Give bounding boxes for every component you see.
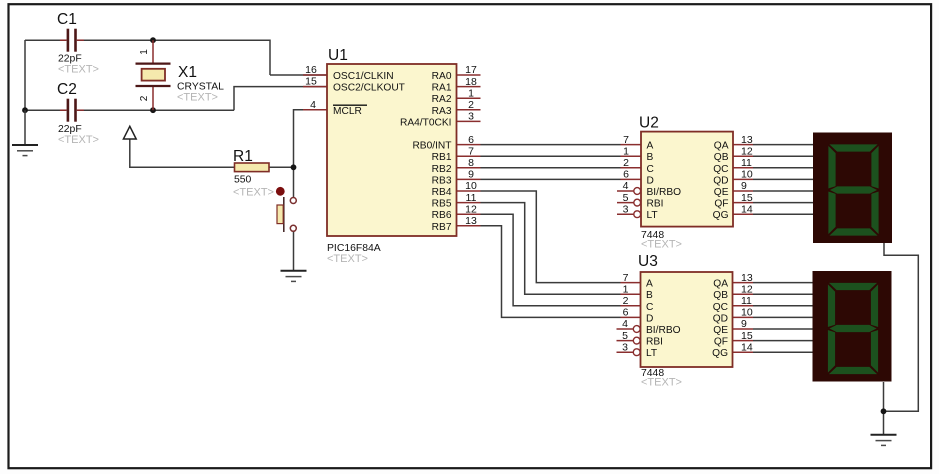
wire U2 QB to display DS1 — [753, 155, 813, 157]
svg-text:7: 7 — [468, 145, 474, 157]
pin stub U3 QE — [733, 328, 753, 330]
svg-text:RBI: RBI — [646, 337, 663, 348]
decoder U3 bubble pin LT (pin 3) — [617, 349, 641, 356]
svg-text:5: 5 — [622, 330, 628, 342]
pin stub RA2 (pin 1) — [457, 97, 481, 99]
wire U3 QB to display DS2 — [753, 293, 813, 295]
decoder U2 bubble pin LT (pin 3) — [617, 211, 641, 218]
wire U2 QE to display DS1 — [753, 190, 813, 192]
decoder U3 bubble pin RBI (pin 5) — [617, 337, 641, 344]
svg-text:2: 2 — [139, 95, 150, 101]
svg-text:11: 11 — [741, 295, 752, 307]
svg-text:16: 16 — [305, 64, 317, 76]
wire RB5 to U3 B — [481, 203, 621, 295]
svg-text:<TEXT>: <TEXT> — [58, 134, 99, 146]
wire R1 right lead to node — [269, 166, 294, 168]
pin stub U3 QB — [733, 293, 753, 295]
svg-text:1: 1 — [139, 49, 150, 55]
svg-text:6: 6 — [623, 307, 629, 319]
svg-text:C2: C2 — [57, 81, 77, 98]
7-segment display DS1 — [813, 133, 892, 244]
svg-text:6: 6 — [468, 134, 474, 146]
svg-text:9: 9 — [741, 180, 747, 192]
svg-text:QG: QG — [712, 348, 728, 359]
decoder U2 bubble pin BI/RBO (pin 4) — [617, 188, 641, 195]
wire U2 QG to display DS1 — [753, 213, 813, 215]
svg-text:QF: QF — [714, 199, 728, 210]
svg-text:<TEXT>: <TEXT> — [177, 92, 218, 104]
svg-text:11: 11 — [466, 192, 477, 204]
wire U2 QC to display DS1 — [753, 167, 813, 169]
svg-text:3: 3 — [468, 111, 474, 123]
svg-text:13: 13 — [741, 134, 753, 146]
svg-text:C: C — [646, 302, 653, 313]
pin stub RB1 — [457, 155, 481, 157]
svg-text:RB5: RB5 — [432, 199, 452, 210]
svg-text:2: 2 — [623, 295, 629, 307]
pin stub U3 QC — [733, 305, 753, 307]
svg-text:10: 10 — [741, 307, 753, 319]
wire U3 QG to display DS2 — [753, 351, 813, 353]
svg-text:RB6: RB6 — [432, 210, 452, 221]
svg-text:OSC1/CLKIN: OSC1/CLKIN — [333, 71, 394, 82]
pin stub RB6 — [457, 213, 481, 215]
wire crystal node to OSC2 corner — [234, 87, 327, 111]
capacitor C2 — [60, 99, 84, 122]
wire RB7 to U3 D — [481, 226, 621, 318]
svg-text:2: 2 — [468, 99, 474, 111]
svg-text:RB4: RB4 — [432, 187, 452, 198]
svg-text:RA2: RA2 — [432, 94, 452, 105]
svg-text:QE: QE — [714, 187, 729, 198]
pin stub RB7 — [457, 225, 481, 227]
pin stub U3 B — [621, 293, 641, 295]
pin stub U2 QC — [733, 167, 753, 169]
svg-text:4: 4 — [622, 318, 628, 330]
svg-text:13: 13 — [741, 272, 753, 284]
crystal X1 — [136, 40, 171, 110]
svg-text:10: 10 — [465, 180, 477, 192]
wire ground rail C1-C2 left vertical — [24, 40, 26, 110]
pin stub U2 QA — [733, 144, 753, 146]
svg-text:QB: QB — [714, 152, 729, 163]
wire C1 left lead — [25, 39, 66, 41]
svg-text:RB2: RB2 — [432, 164, 452, 175]
svg-text:BI/RBO: BI/RBO — [647, 187, 682, 198]
pin stub U3 QA — [733, 282, 753, 284]
svg-text:D: D — [646, 313, 653, 324]
svg-text:RA4/T0CKI: RA4/T0CKI — [400, 117, 452, 128]
svg-text:RB1: RB1 — [432, 152, 452, 163]
pin stub U2 D — [621, 178, 642, 180]
wire RB0 to U2 A — [481, 144, 621, 146]
wire U3 QA to display DS2 — [753, 282, 813, 284]
svg-text:OSC2/CLKOUT: OSC2/CLKOUT — [333, 83, 405, 94]
svg-text:BI/RBO: BI/RBO — [646, 325, 681, 336]
svg-text:<TEXT>: <TEXT> — [58, 63, 99, 75]
pin stub U3 A — [621, 282, 641, 284]
svg-text:D: D — [647, 175, 654, 186]
pin stub RB5 — [457, 202, 481, 204]
svg-text:17: 17 — [465, 64, 477, 76]
wire button bottom terminal to ground — [293, 231, 295, 270]
wire display DS1 common down and right side — [884, 243, 919, 411]
svg-text:C: C — [647, 164, 654, 175]
svg-text:5: 5 — [623, 192, 629, 204]
svg-text:QF: QF — [714, 337, 728, 348]
pin stub RA1 (pin 18) — [457, 86, 481, 88]
pin stub U3 QG — [733, 351, 753, 353]
svg-text:14: 14 — [741, 203, 753, 215]
push button — [276, 187, 296, 232]
decoder U3 7448 body — [641, 272, 733, 367]
wire power terminal to R1 left lead — [130, 128, 235, 167]
svg-text:B: B — [647, 152, 654, 163]
svg-text:15: 15 — [741, 192, 753, 204]
svg-text:RB3: RB3 — [432, 175, 452, 186]
pin 16 stub U1 OSC1 — [303, 74, 327, 76]
svg-text:9: 9 — [468, 169, 474, 181]
pin 4 stub U1 MCLR — [303, 109, 327, 111]
pin stub U2 QG — [733, 213, 753, 215]
wire U2 QA to display DS1 — [753, 144, 813, 146]
wire U3 QF to display DS2 — [753, 340, 813, 342]
svg-text:QD: QD — [713, 175, 728, 186]
svg-text:9: 9 — [741, 318, 747, 330]
pin stub RA4 (pin 3) — [457, 120, 481, 122]
svg-text:X1: X1 — [178, 64, 197, 81]
pin stub U2 QB — [733, 155, 753, 157]
pin stub U3 QF — [733, 340, 753, 342]
wire RB2 to U2 C — [481, 167, 621, 169]
svg-text:RA1: RA1 — [432, 83, 452, 94]
wire U3 QD to display DS2 — [753, 316, 813, 318]
ground left rail — [12, 110, 38, 155]
svg-text:12: 12 — [741, 145, 753, 157]
wire C2 left lead — [25, 109, 66, 111]
svg-text:C1: C1 — [57, 11, 77, 28]
svg-text:14: 14 — [741, 341, 753, 353]
IC U1 PIC16F84A body — [327, 64, 457, 236]
decoder U3 bubble pin BI/RBO (pin 4) — [617, 326, 641, 333]
wire OSC1 net to U1 pin 16 — [270, 74, 327, 76]
pin stub RB4 — [457, 190, 481, 192]
wire U2 QD to display DS1 — [753, 178, 813, 180]
svg-text:RA3: RA3 — [432, 106, 452, 117]
wire U3 QC to display DS2 — [753, 305, 813, 307]
svg-text:<TEXT>: <TEXT> — [233, 187, 274, 199]
svg-text:4: 4 — [623, 180, 629, 192]
pin stub RB3 — [457, 178, 481, 180]
pin stub U3 C — [621, 305, 641, 307]
svg-text:RA0: RA0 — [432, 71, 452, 82]
svg-text:7: 7 — [623, 134, 629, 146]
svg-text:R1: R1 — [233, 148, 253, 165]
svg-text:U1: U1 — [328, 47, 348, 64]
svg-text:<TEXT>: <TEXT> — [327, 253, 368, 265]
pin stub U2 QD — [733, 178, 753, 180]
svg-text:<TEXT>: <TEXT> — [641, 239, 682, 251]
node R1 / MCLR / button junction — [291, 164, 297, 170]
svg-text:B: B — [646, 290, 653, 301]
pin stub U2 A — [621, 144, 642, 146]
resistor R1 — [235, 163, 270, 172]
pin stub RB2 — [457, 167, 481, 169]
wire display DS2 common to ground node — [883, 382, 885, 434]
wire RB3 to U2 D — [481, 178, 621, 180]
svg-text:3: 3 — [622, 341, 628, 353]
svg-text:MCLR: MCLR — [333, 106, 362, 117]
svg-text:LT: LT — [646, 348, 657, 359]
svg-text:<TEXT>: <TEXT> — [641, 377, 682, 389]
svg-text:QA: QA — [713, 279, 728, 290]
svg-text:1: 1 — [623, 283, 629, 295]
node ground rail / C2 junction — [22, 107, 28, 113]
svg-text:LT: LT — [647, 210, 658, 221]
svg-text:QD: QD — [713, 313, 728, 324]
node display commons junction — [881, 408, 887, 414]
power terminal arrow — [123, 126, 136, 139]
node crystal pin2 / C2 junction — [150, 107, 156, 113]
svg-text:15: 15 — [305, 76, 317, 88]
wire C2 right to crystal pin 2 node — [77, 109, 234, 111]
U1 pin label MCLR with overline — [333, 105, 367, 117]
svg-text:U3: U3 — [638, 253, 658, 270]
wire node to button top terminal — [293, 167, 295, 197]
svg-text:18: 18 — [465, 76, 477, 88]
wire U2 QF to display DS1 — [753, 202, 813, 204]
pin stub U2 C — [621, 167, 642, 169]
svg-text:4: 4 — [310, 99, 316, 111]
node crystal pin1 / C1 junction — [150, 37, 156, 43]
svg-text:2: 2 — [623, 157, 629, 169]
svg-text:6: 6 — [623, 169, 629, 181]
decoder U2 bubble pin RBI (pin 5) — [617, 199, 641, 206]
pin stub RA3 (pin 2) — [457, 109, 481, 111]
pin stub U2 QF — [733, 202, 753, 204]
svg-text:12: 12 — [741, 283, 753, 295]
ground displays common — [871, 435, 897, 446]
wire U3 QE to display DS2 — [753, 328, 813, 330]
svg-text:3: 3 — [623, 203, 629, 215]
svg-text:11: 11 — [741, 157, 752, 169]
wire RB4 to U3 A — [481, 191, 621, 283]
pin stub RA0 (pin 17) — [457, 74, 481, 76]
ground below button — [281, 271, 307, 282]
svg-text:QA: QA — [714, 141, 729, 152]
svg-text:10: 10 — [741, 169, 753, 181]
pin stub RB0 — [457, 144, 481, 146]
svg-text:7: 7 — [623, 272, 629, 284]
svg-text:12: 12 — [465, 203, 477, 215]
svg-text:RBI: RBI — [647, 199, 664, 210]
svg-text:U2: U2 — [639, 115, 659, 132]
svg-text:QC: QC — [713, 302, 728, 313]
capacitor C1 — [60, 29, 84, 52]
svg-text:1: 1 — [623, 145, 629, 157]
svg-text:QG: QG — [713, 210, 729, 221]
svg-text:1: 1 — [468, 87, 474, 99]
pin 15 stub U1 OSC2 — [303, 86, 327, 88]
svg-text:RB0/INT: RB0/INT — [412, 141, 451, 152]
svg-text:13: 13 — [465, 215, 477, 227]
svg-text:RB7: RB7 — [432, 222, 452, 233]
svg-text:QB: QB — [713, 290, 728, 301]
svg-text:8: 8 — [468, 157, 474, 169]
wire C1 right to crystal node and U1 OSC1 corner — [77, 40, 270, 75]
wire MCLR pin 4 to R1 node — [294, 110, 328, 168]
7-segment display DS2 — [813, 271, 892, 382]
svg-text:550: 550 — [234, 175, 252, 186]
pin stub U3 QD — [733, 316, 753, 318]
svg-text:QE: QE — [713, 325, 728, 336]
pin stub U2 B — [621, 155, 642, 157]
decoder U2 7448 body — [641, 132, 733, 227]
svg-text:QC: QC — [713, 164, 728, 175]
pin stub U3 D — [621, 316, 641, 318]
svg-text:A: A — [647, 141, 654, 152]
svg-text:A: A — [646, 279, 653, 290]
wire RB1 to U2 B — [481, 155, 621, 157]
pin stub U2 QE — [733, 190, 753, 192]
svg-text:15: 15 — [741, 330, 753, 342]
wire RB6 to U3 C — [481, 214, 621, 306]
